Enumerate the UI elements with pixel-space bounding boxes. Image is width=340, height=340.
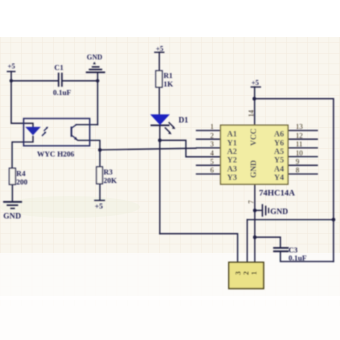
svg-text:Y3: Y3 xyxy=(227,173,237,182)
svg-text:GND: GND xyxy=(87,53,103,61)
svg-text:Y4: Y4 xyxy=(274,173,284,182)
svg-text:WYC H206: WYC H206 xyxy=(37,150,75,159)
svg-text:1: 1 xyxy=(210,123,214,131)
svg-text:4: 4 xyxy=(210,149,214,157)
svg-text:9: 9 xyxy=(296,158,300,166)
svg-text:12: 12 xyxy=(296,132,304,140)
svg-text:1K: 1K xyxy=(164,80,174,89)
svg-text:GND: GND xyxy=(270,207,288,216)
svg-text:A5: A5 xyxy=(274,147,284,156)
svg-text:2: 2 xyxy=(210,132,214,140)
svg-text:74HC14A: 74HC14A xyxy=(259,187,296,197)
svg-text:20K: 20K xyxy=(104,176,118,185)
svg-text:A2: A2 xyxy=(227,147,237,156)
svg-text:1: 1 xyxy=(250,271,259,275)
svg-text:VCC: VCC xyxy=(249,128,258,146)
svg-text:10: 10 xyxy=(296,149,304,157)
svg-text:Y5: Y5 xyxy=(274,156,284,165)
svg-text:A6: A6 xyxy=(274,130,284,139)
svg-text:A4: A4 xyxy=(274,164,284,173)
svg-text:13: 13 xyxy=(296,123,304,131)
svg-text:5: 5 xyxy=(210,158,214,166)
svg-text:GND: GND xyxy=(249,160,258,178)
svg-text:D1: D1 xyxy=(179,116,189,125)
svg-text:GND: GND xyxy=(3,212,21,221)
svg-text:C1: C1 xyxy=(54,63,63,72)
svg-text:0.1uF: 0.1uF xyxy=(289,254,308,263)
svg-text:3: 3 xyxy=(210,141,214,149)
svg-text:Y2: Y2 xyxy=(227,156,237,165)
svg-text:A1: A1 xyxy=(227,130,237,139)
svg-text:0.1uF: 0.1uF xyxy=(53,88,72,97)
svg-text:Y6: Y6 xyxy=(274,138,284,147)
svg-text:+5: +5 xyxy=(95,201,103,210)
svg-text:11: 11 xyxy=(296,141,303,149)
svg-text:Y1: Y1 xyxy=(227,138,237,147)
svg-text:6: 6 xyxy=(210,167,214,175)
svg-text:8: 8 xyxy=(296,167,300,175)
svg-text:200: 200 xyxy=(16,178,28,187)
svg-text:A3: A3 xyxy=(227,164,237,173)
svg-text:+5: +5 xyxy=(156,45,164,53)
svg-text:+5: +5 xyxy=(251,79,259,87)
svg-text:14: 14 xyxy=(247,110,255,117)
svg-text:+5: +5 xyxy=(8,62,16,70)
svg-text:7: 7 xyxy=(248,200,256,204)
